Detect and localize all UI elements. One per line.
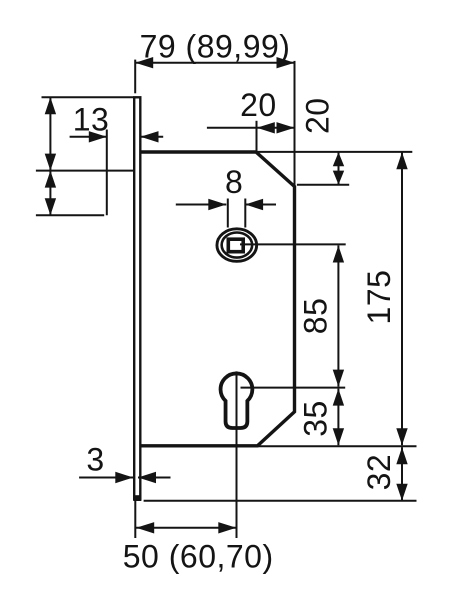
dimension 13 bbox=[70, 102, 164, 143]
follower outer circle bbox=[217, 229, 257, 262]
follower square hole bbox=[228, 239, 243, 252]
dimension 85 bbox=[298, 246, 345, 387]
dimension 175 bbox=[361, 152, 408, 445]
faceplate bbox=[133, 97, 141, 501]
svg-text:8: 8 bbox=[225, 164, 243, 200]
extension line middle-left bbox=[36, 170, 133, 172]
follower inner circle bbox=[222, 233, 253, 258]
svg-text:13: 13 bbox=[73, 102, 110, 138]
svg-text:32: 32 bbox=[361, 454, 397, 491]
faceplate bottom extension line to the right bbox=[144, 500, 417, 502]
dimension 32 bbox=[361, 447, 408, 501]
chamfer bottom extension line bbox=[297, 184, 349, 186]
dimension 50 (60,70) bbox=[123, 522, 274, 574]
dimension 35 bbox=[298, 389, 345, 446]
svg-text:35: 35 bbox=[298, 400, 334, 437]
dimension 3 bbox=[79, 442, 170, 484]
dimension 50 extension line (faceplate) bbox=[134, 501, 136, 538]
dimension 79 (89,99) extension lines bbox=[134, 60, 136, 94]
dimension 20 horizontal: extension line at chamfer start bbox=[256, 121, 258, 152]
dimension 13 extension line bbox=[106, 130, 108, 216]
follower centre extension line bbox=[240, 243, 346, 245]
lock body outline bbox=[142, 152, 295, 446]
keyhole bbox=[221, 373, 253, 428]
svg-text:20: 20 bbox=[299, 97, 335, 134]
svg-text:79 (89,99): 79 (89,99) bbox=[140, 29, 291, 65]
keyhole centre line (vertical) bbox=[236, 371, 238, 538]
top edge extension to the right bbox=[256, 151, 412, 153]
dimension 20 horizontal bbox=[207, 87, 295, 133]
dimension 8 bbox=[176, 164, 276, 210]
body bottom extension line to the right bbox=[258, 445, 417, 447]
svg-text:20: 20 bbox=[240, 87, 277, 123]
dimension 8 extension lines bbox=[227, 199, 229, 228]
dimension 20 vertical bbox=[299, 97, 344, 184]
dimension 79 (89,99) bbox=[135, 29, 294, 69]
svg-text:85: 85 bbox=[298, 298, 334, 335]
svg-text:50 (60,70): 50 (60,70) bbox=[123, 538, 274, 574]
svg-text:3: 3 bbox=[86, 442, 104, 478]
left vertical dimension line (two stacked unlabeled dims) bbox=[45, 97, 56, 215]
extension line lower-left bbox=[36, 214, 104, 216]
svg-text:175: 175 bbox=[361, 270, 397, 325]
extension line top-left (faceplate top level) bbox=[42, 96, 134, 98]
keyhole centre extension line (horizontal) bbox=[241, 387, 346, 389]
